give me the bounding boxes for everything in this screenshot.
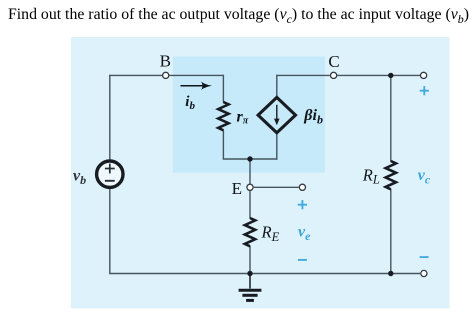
source vb circle bbox=[97, 161, 123, 187]
wire: E to R_E bbox=[249, 191, 251, 219]
wire: diamond top to top rail bbox=[276, 75, 278, 99]
bottom output terminal bbox=[421, 270, 427, 276]
node C terminal bbox=[331, 72, 337, 78]
dependent current source diamond bbox=[258, 97, 295, 132]
node E terminal bbox=[247, 184, 253, 190]
ground bbox=[249, 274, 251, 289]
wire: node B to r_pi top corner bbox=[170, 74, 224, 76]
plus sign at v_e bbox=[298, 204, 307, 206]
resistor R_L bbox=[386, 161, 396, 189]
collector output terminal bbox=[421, 72, 427, 78]
wire: E branch upper bbox=[249, 159, 251, 184]
wire: bottom rail bbox=[110, 273, 420, 275]
plus sign at v_c bbox=[420, 90, 429, 92]
wire: r_pi bottom down bbox=[222, 130, 224, 159]
wire: R_E bottom bbox=[249, 246, 251, 274]
wire: source bottom lead bbox=[109, 188, 111, 275]
junction dot: inner bottom bbox=[247, 156, 252, 161]
junction dot: C rail bbox=[388, 73, 393, 78]
source minus sign bbox=[105, 180, 115, 182]
junction dot: R_L bottom bbox=[388, 271, 393, 276]
wire: inner bottom horizontal bbox=[223, 158, 278, 160]
current arrow i_b bbox=[181, 85, 206, 87]
wire: source top lead bbox=[109, 75, 111, 161]
resistor R_E bbox=[245, 218, 255, 246]
wire: R_L top bbox=[390, 75, 392, 161]
svg-text:B: B bbox=[160, 52, 171, 71]
wire: source top to node B bbox=[110, 74, 162, 76]
wire: diamond bottom to inner bottom bbox=[276, 134, 278, 160]
node B terminal bbox=[163, 72, 169, 78]
light blue figure panel bbox=[71, 37, 450, 309]
wire: down to r_pi bbox=[222, 75, 224, 103]
svg-text:C: C bbox=[328, 52, 339, 71]
resistor r_pi bbox=[218, 102, 228, 130]
wire: R_L bottom bbox=[390, 189, 392, 274]
transistor model shaded box bbox=[173, 56, 325, 172]
junction dot: ground bbox=[247, 271, 252, 276]
minus sign at v_c bbox=[420, 256, 429, 258]
emitter output terminal bbox=[299, 184, 305, 190]
wire: node C to collector terminal bbox=[337, 74, 423, 76]
wire: diamond top rail to node C bbox=[277, 74, 330, 76]
current source arrow bbox=[276, 105, 278, 121]
problem statement text bbox=[8, 6, 474, 27]
source plus sign bbox=[105, 168, 115, 170]
minus sign at v_e bbox=[298, 259, 307, 261]
svg-text:E: E bbox=[232, 179, 242, 198]
wire: E to emitter terminal bbox=[254, 186, 299, 188]
